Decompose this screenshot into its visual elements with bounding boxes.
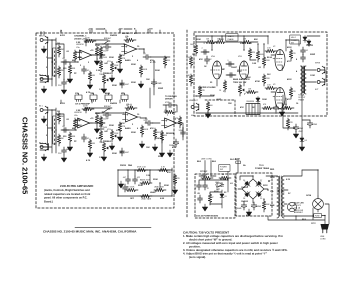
ground under D4 [299, 144, 304, 151]
svg-text:47K: 47K [150, 127, 154, 130]
resistor R16 22K [95, 114, 98, 126]
svg-text:250K: 250K [103, 127, 108, 129]
svg-text:220K: 220K [186, 57, 191, 59]
resistor R37 600 ohm [206, 101, 209, 113]
svg-text:(Jacks, Controls, Bright Switc: (Jacks, Controls, Bright Switches and [44, 188, 90, 192]
svg-text:100K: 100K [262, 99, 267, 101]
jack J2 contact strokes [40, 76, 49, 83]
capacitor C25 20MF [307, 120, 312, 128]
svg-text:V3: V3 [273, 84, 275, 86]
front panel pot row ch1: middle pot body [121, 95, 128, 100]
svg-text:PHASE: PHASE [228, 38, 235, 41]
resistor R12 1M [57, 134, 60, 146]
svg-text:525V: 525V [263, 185, 268, 187]
svg-text:1N4003: 1N4003 [241, 186, 249, 189]
svg-text:600: 600 [191, 115, 194, 117]
output tube V3 EL34 [273, 88, 285, 109]
pilot lamp P1 [287, 202, 296, 211]
svg-text:LEAD GAIN: LEAD GAIN [141, 198, 152, 201]
ground under R19 [139, 141, 144, 148]
svg-text:220K: 220K [85, 38, 90, 40]
rail resistor Ra 10K [205, 40, 217, 43]
svg-text:430V: 430V [287, 78, 292, 81]
svg-text:250K: 250K [114, 65, 119, 67]
capacitor C4 120pF [103, 45, 111, 50]
ground under R17 [117, 134, 122, 141]
svg-text:250K: 250K [138, 185, 143, 187]
svg-text:MID: MID [120, 84, 124, 86]
ground under R9 [138, 81, 143, 88]
resistor R46 [208, 193, 211, 205]
svg-text:218V: 218V [240, 43, 245, 45]
svg-text:+15V: +15V [88, 29, 93, 31]
svg-text:LINE CORD: LINE CORD [201, 159, 212, 161]
svg-text:1N4003: 1N4003 [241, 200, 249, 203]
volume control slider box [53, 48, 56, 76]
ticks above border ch1 [41, 32, 44, 37]
capacitor C21 [301, 47, 306, 55]
capacitor C5b .0047 ch1 [120, 80, 125, 88]
svg-text:25MF: 25MF [158, 88, 164, 90]
svg-text:D7: D7 [260, 180, 262, 182]
svg-text:FROM: FROM [120, 165, 126, 167]
wire: channel 2 signal bus [48, 104, 183, 153]
capacitor C9 120pF [103, 113, 111, 118]
resistor R9 500K [139, 65, 142, 77]
ground in AC board [202, 204, 207, 211]
svg-text:2. All voltages measured with: 2. All voltages measured with zero input… [183, 241, 279, 245]
svg-text:4. Adjust BIAS trim pot so th: 4. Adjust BIAS trim pot so that exactly … [183, 251, 268, 255]
svg-text:120PF: 120PF [103, 119, 109, 121]
svg-text:BIAS: BIAS [233, 78, 239, 81]
svg-text:100: 100 [284, 104, 287, 106]
svg-text:.02: .02 [209, 59, 212, 61]
svg-text:3.3M: 3.3M [76, 42, 81, 44]
svg-text:BRN: BRN [270, 205, 275, 207]
svg-text:.0047: .0047 [125, 152, 130, 154]
wire: jack switching chain ch2 [48, 113, 65, 144]
op-amp U2b [123, 112, 141, 122]
ground under R20 [152, 144, 157, 151]
svg-text:MID: MID [120, 152, 124, 154]
resistor R44 22K [286, 118, 289, 130]
rectifier diode D8 [244, 190, 252, 198]
svg-text:.047: .047 [123, 177, 127, 179]
supply rail marks above channel 1 [61, 29, 148, 33]
svg-text:1M: 1M [61, 49, 64, 51]
svg-text:.1: .1 [201, 48, 203, 50]
ground right of U2c [167, 150, 172, 157]
svg-text:47PF: 47PF [278, 109, 282, 111]
svg-text:BASS 250K: BASS 250K [140, 179, 151, 182]
svg-text:47K: 47K [199, 58, 203, 61]
preamp board dashed outline [36, 33, 174, 208]
svg-text:12AX7: 12AX7 [231, 66, 238, 69]
fuse F2 holder [314, 214, 322, 218]
resistor R45b line filter 2 [219, 176, 231, 179]
resistor R45 line filter [201, 176, 213, 179]
svg-text:.1: .1 [227, 60, 229, 62]
svg-text:20MF: 20MF [310, 54, 316, 56]
feedback resistor R21 over U2c [164, 110, 176, 113]
resistor R10 10K [163, 56, 166, 68]
resistor R35 15K bias [246, 90, 258, 93]
resistor R47 bleeder [262, 200, 265, 212]
svg-text:3.3M: 3.3M [76, 110, 81, 112]
wire: power amp top rail and bus [196, 36, 320, 113]
front panel pot row ch1: bass pot body [105, 95, 112, 100]
svg-text:LM1458: LM1458 [76, 44, 84, 46]
feedback resistor R15 220K [82, 107, 94, 110]
svg-text:2N4250: 2N4250 [110, 34, 118, 37]
title rule [75, 226, 151, 228]
svg-text:.02: .02 [87, 138, 90, 140]
wire: AC input drops [199, 161, 238, 177]
op-amp U1a [77, 50, 95, 60]
output transformer secondary winding [304, 66, 306, 82]
svg-text:500K: 500K [155, 70, 160, 72]
svg-text:470: 470 [293, 53, 296, 55]
svg-text:250K: 250K [131, 64, 136, 66]
svg-text:1.5K: 1.5K [99, 89, 104, 91]
ground under C8 [61, 155, 66, 162]
volume pot VR3 250K [110, 130, 116, 142]
svg-text:.02: .02 [87, 70, 90, 72]
ground at tone stack right [172, 187, 177, 194]
svg-text:220K: 220K [196, 39, 201, 41]
svg-text:4.7K: 4.7K [172, 146, 177, 149]
capacitor C10 .047 [97, 121, 105, 126]
svg-text:470K 1.5K: 470K 1.5K [137, 167, 147, 169]
svg-text:SLO-BLO: SLO-BLO [230, 159, 239, 161]
svg-text:2100-65 POWER BOARD: 2100-65 POWER BOARD [196, 215, 219, 218]
svg-text:SPKR: SPKR [315, 63, 321, 65]
resistor R42 feedback 47K [262, 106, 274, 109]
svg-text:.01: .01 [194, 188, 196, 190]
input jack J2 [40, 75, 48, 83]
svg-text:LO PWR: LO PWR [216, 186, 224, 188]
svg-text:MASTER VOLUME: MASTER VOLUME [198, 86, 216, 89]
svg-text:470K: 470K [255, 80, 260, 83]
power amp board dashed outline [194, 32, 327, 116]
svg-text:1.5K: 1.5K [99, 157, 104, 159]
svg-text:47: 47 [212, 197, 214, 199]
svg-text:GRN: GRN [270, 177, 275, 179]
svg-text:COM: COM [310, 75, 315, 77]
svg-text:1M: 1M [126, 42, 129, 44]
svg-text:15K: 15K [228, 103, 232, 105]
rectifier diode D9 [255, 190, 263, 198]
rectifier board dashed outline [236, 173, 272, 216]
svg-text:250K: 250K [103, 57, 108, 59]
resistor R4 470K [73, 50, 76, 62]
svg-text:1M: 1M [125, 37, 128, 39]
svg-text:CHASSIS NO. 2100-65: CHASSIS NO. 2100-65 [21, 117, 30, 194]
output transformer T120-A core [302, 66, 305, 93]
svg-text:V2: V2 [273, 46, 275, 48]
treble pot VR7 250K [154, 188, 166, 191]
wire: rail ticks above border [90, 30, 160, 33]
capacitor C7b .02 mid [82, 134, 87, 142]
feedback resistor R8 1M [124, 38, 136, 41]
svg-text:D9: D9 [260, 198, 262, 200]
svg-text:BASS: BASS [125, 127, 131, 130]
svg-text:BLK: BLK [212, 161, 217, 163]
svg-text:220V: 220V [237, 71, 242, 73]
feedback capacitor C12 over U2c [166, 103, 174, 108]
input jack J4 [40, 143, 48, 151]
svg-text:1.8K: 1.8K [252, 63, 257, 65]
svg-text:W: W [222, 174, 224, 176]
svg-text:PAN: PAN [128, 164, 133, 167]
svg-text:CORD: CORD [320, 238, 326, 240]
svg-text:3.3K: 3.3K [96, 138, 101, 140]
svg-text:250K: 250K [112, 85, 117, 87]
line out jack J5 [191, 103, 199, 111]
diode D1 bias [256, 97, 260, 104]
ground under R17b [87, 150, 92, 157]
svg-text:BLK: BLK [302, 219, 307, 221]
rectifier diode D6 [244, 180, 252, 188]
svg-text:12AX7: 12AX7 [228, 35, 235, 38]
power transformer T101 secondary winding [282, 176, 284, 192]
wire: tone stack top rail [118, 168, 172, 196]
svg-text:600: 600 [210, 105, 213, 107]
svg-text:S3: S3 [224, 192, 226, 194]
svg-text:POWER TRANS: POWER TRANS [255, 167, 270, 170]
svg-text:250K: 250K [131, 132, 136, 134]
resistor R26 at tone stack right [173, 174, 176, 186]
wire: to line plug [268, 170, 329, 224]
svg-text:3.3K: 3.3K [96, 70, 101, 72]
svg-text:2100-65 PRE AMP BOARD: 2100-65 PRE AMP BOARD [60, 184, 93, 188]
svg-text:+15V: +15V [118, 29, 123, 31]
power switch box S3 [219, 165, 230, 172]
wire: ch1 to ch2 vertical feed [149, 88, 151, 108]
svg-text:6.8K: 6.8K [160, 198, 165, 200]
svg-text:.0047: .0047 [125, 84, 130, 86]
svg-text:250K: 250K [210, 95, 215, 97]
svg-text:TRANS: TRANS [298, 98, 305, 101]
capacitor C22 [301, 54, 306, 62]
resistor R27 plate 100K [194, 44, 197, 56]
svg-text:100K: 100K [190, 44, 195, 46]
capacitor C13b at channel 2 output [181, 129, 186, 137]
resistor R25 6.8K [140, 194, 152, 197]
svg-text:BASS: BASS [105, 92, 111, 95]
svg-text:1M: 1M [61, 70, 64, 72]
svg-text:GZ34: GZ34 [306, 194, 312, 197]
svg-text:47K: 47K [167, 171, 171, 174]
resistor R14 470K [73, 118, 76, 130]
resistor R1 1M [57, 45, 60, 57]
capacitor C11 .1 [145, 121, 153, 126]
svg-text:panel. All other components o: panel. All other components on P.C. [44, 196, 88, 200]
diode D2 [303, 36, 307, 43]
resistor R33 220K grid [262, 56, 265, 68]
svg-text:1M: 1M [61, 138, 64, 140]
svg-text:1M: 1M [173, 119, 176, 121]
ground under VR4 [101, 154, 106, 161]
reverb driver transformer box [246, 104, 260, 115]
resistor R13 68K [68, 132, 71, 144]
rail resistor Rb 10K [215, 40, 227, 43]
bass pot VR5 250K [140, 181, 152, 184]
capacitor C28 [198, 195, 203, 203]
triode V1b [237, 61, 248, 79]
svg-text:related capacitors are located: related capacitors are located on front [44, 192, 90, 196]
treble pot VR2 [102, 74, 108, 86]
input jack J1 [40, 36, 48, 44]
svg-text:10K: 10K [146, 147, 150, 149]
diode D3 [307, 40, 311, 47]
jack J4 contact strokes [40, 144, 49, 151]
resistor R17 47K [118, 122, 121, 134]
resistor R11 1M [57, 112, 60, 124]
power transformer T101 primary winding [277, 176, 279, 192]
capacitor C26 line [197, 182, 202, 190]
wire: jack switching chain ch1 [48, 43, 65, 76]
capacitor C15 .022 [133, 176, 138, 184]
resistor R20 100K [153, 128, 156, 140]
ground at J1 [41, 46, 46, 53]
output transformer primary winding [301, 66, 303, 82]
svg-text:BRIGHT: BRIGHT [104, 106, 112, 108]
wire: channel 1 signal bus [48, 38, 170, 95]
svg-text:250K: 250K [164, 185, 169, 187]
resistor R31 82K [248, 48, 251, 60]
svg-text:500K: 500K [144, 129, 149, 131]
svg-text:(zero signal).: (zero signal). [189, 255, 206, 259]
svg-text:RED: RED [270, 169, 275, 171]
svg-text:LM1458: LM1458 [74, 112, 82, 114]
ground under R22 [159, 150, 164, 157]
svg-text:D5: D5 [225, 196, 227, 198]
op-amp U1b [122, 44, 140, 54]
resistor R29 1.5K [189, 74, 192, 86]
resistor R6b long 250K ch1 [99, 46, 102, 58]
svg-text:BASS: BASS [125, 59, 131, 62]
diode D4 [300, 137, 304, 144]
svg-text:68K: 68K [72, 60, 76, 62]
resistor R19 500K [140, 125, 143, 137]
svg-text:100K: 100K [210, 43, 215, 45]
svg-text:D4: D4 [305, 140, 307, 142]
resistor R17c long 250K ch2 [99, 116, 102, 128]
ground under filters [246, 209, 251, 216]
svg-text:LO: LO [230, 183, 233, 185]
svg-text:2N4250: 2N4250 [110, 102, 118, 105]
svg-text:25MF: 25MF [157, 83, 163, 85]
svg-text:470: 470 [293, 91, 296, 93]
svg-text:600V: 600V [214, 191, 219, 193]
capacitor C10b .0047 ch2 [120, 148, 125, 156]
svg-text:HI PWR: HI PWR [216, 183, 223, 185]
hi-lo power switch box [290, 35, 301, 44]
bright switch S2 [102, 109, 110, 112]
filter capacitor C29 80MF [241, 202, 246, 210]
resistor R22b 47K at border [178, 116, 181, 128]
op-amp U2a [75, 118, 93, 128]
capacitor C13 25MF [173, 139, 178, 147]
wire: transformer leads [266, 170, 313, 220]
preamp/chassis divider dashed line [186, 30, 188, 217]
grid resistor R38 1.5K [265, 49, 277, 52]
svg-text:DRIVER: DRIVER [165, 99, 173, 101]
resistor R3 68K [68, 64, 71, 76]
capacitor C1b .02 mid [82, 66, 87, 74]
resistor R43 [282, 106, 294, 109]
svg-text:4.7K: 4.7K [86, 159, 91, 162]
ground at J4 [41, 154, 46, 161]
supply rail marks above channel 2 [61, 100, 120, 103]
svg-text:250K: 250K [131, 82, 136, 84]
svg-text:doubt short point “W” to groun: doubt short point “W” to ground. [189, 238, 232, 242]
svg-text:220K: 220K [83, 106, 88, 108]
op-amp U2c [162, 118, 180, 128]
resistor R24 100K [158, 168, 170, 171]
svg-text:D6: D6 [243, 180, 245, 182]
resistor R2 1M [57, 66, 60, 78]
junction dots: channel 1 [51, 39, 52, 40]
slider box inner markings ch1 [53, 51, 55, 77]
channel 2 gain slider box [53, 116, 56, 144]
svg-text:500K: 500K [143, 69, 148, 71]
junction dots: power supply [204, 175, 205, 176]
ground under R37 [205, 111, 210, 118]
capacitor C18 .02 [205, 56, 210, 64]
svg-text:10K: 10K [146, 79, 150, 81]
svg-text:REVERB: REVERB [166, 133, 175, 135]
capacitor C3 .047 [97, 53, 105, 58]
resistor R6 22K [95, 46, 98, 58]
wire: B+ feed right column [283, 95, 310, 148]
rectifier tube V4 GZ34 [313, 199, 324, 210]
svg-text:4.7K: 4.7K [86, 91, 91, 94]
svg-text:LIMITER: LIMITER [122, 33, 130, 35]
svg-text:SW: SW [291, 42, 294, 44]
ground in tone stack [118, 181, 123, 188]
junction dots: tone stack [117, 169, 118, 170]
ground under R13 [67, 144, 72, 151]
svg-text:W: W [263, 199, 265, 201]
capacitor C5 .1 [143, 55, 151, 60]
ground under C24 [293, 131, 298, 138]
svg-text:1M: 1M [57, 43, 60, 45]
svg-text:500K: 500K [155, 138, 160, 140]
svg-text:.02: .02 [306, 50, 308, 52]
diode D5 [220, 193, 224, 200]
capacitor C23 [274, 104, 279, 112]
svg-text:+15V: +15V [148, 29, 153, 31]
phase inverter label box 12AX7 [226, 34, 238, 41]
svg-text:120PF: 120PF [103, 51, 109, 53]
volume pot VR1 250K [110, 62, 116, 74]
bright switch S1 [102, 41, 110, 44]
front panel pot row ch1: treble pot body [90, 95, 97, 100]
resistor R36 47K [198, 86, 201, 98]
svg-text:BRIGHT: BRIGHT [104, 38, 112, 40]
svg-text:117VAC: 117VAC [200, 170, 208, 173]
capacitor C1 .02 [61, 60, 69, 65]
capacitor C27 line [203, 182, 208, 190]
svg-text:22K: 22K [99, 126, 103, 128]
capacitor C20 between triodes [227, 73, 235, 78]
svg-text:1M: 1M [126, 110, 129, 112]
svg-text:D8: D8 [243, 198, 245, 200]
ground under VR3 [109, 143, 114, 150]
svg-text:450V: 450V [246, 214, 251, 217]
